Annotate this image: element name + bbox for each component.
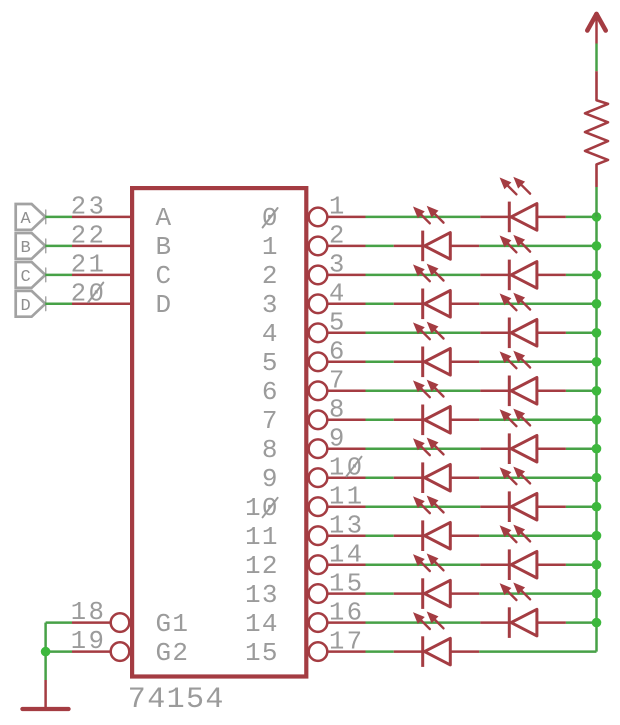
pin 22 (input B) xyxy=(71,222,173,263)
wire net C xyxy=(45,274,72,277)
pin 16 (output 14, inverting) xyxy=(245,598,366,638)
svg-text:12: 12 xyxy=(245,551,279,581)
node junction bus row 3 xyxy=(592,270,602,280)
wire G1 to ground net xyxy=(46,621,72,624)
pin 13 (output 11, inverting) xyxy=(245,512,366,552)
wire output 5 to LED xyxy=(366,361,394,364)
port D xyxy=(16,291,46,317)
LED D2 (row 2) xyxy=(394,207,480,262)
pin 3 (output 2, inverting) xyxy=(262,251,366,291)
wire LED 13 to bus xyxy=(566,563,597,566)
svg-text:5: 5 xyxy=(262,348,279,378)
wire LED 12 to bus xyxy=(479,534,596,537)
svg-text:3: 3 xyxy=(262,290,279,320)
svg-text:9: 9 xyxy=(329,425,347,454)
wire output 1 to LED xyxy=(366,245,394,248)
pin 18 (enable G1, inverting) xyxy=(71,598,190,639)
pin 15 (output 13, inverting) xyxy=(245,569,366,609)
svg-text:2: 2 xyxy=(262,261,279,291)
pin 11 (output 10, inverting) xyxy=(245,483,366,523)
svg-text:B: B xyxy=(156,232,173,262)
node junction bus row 12 xyxy=(592,531,602,541)
LED D3 (row 3) xyxy=(480,236,566,291)
pin 5 (output 4, inverting) xyxy=(262,309,366,349)
node junction at G2 xyxy=(41,647,51,657)
LED D14 (row 14) xyxy=(394,554,480,609)
wire LED 16 to bus xyxy=(479,650,596,653)
node junction bus row 10 xyxy=(592,473,602,483)
pin 4 (output 3, inverting) xyxy=(262,280,366,320)
wire resistor to bus xyxy=(595,187,598,217)
svg-text:6: 6 xyxy=(329,338,347,367)
pin 10 (output 9, inverting) xyxy=(262,454,366,494)
svg-text:8: 8 xyxy=(329,396,347,425)
svg-text:7: 7 xyxy=(329,367,347,396)
svg-text:2: 2 xyxy=(329,222,347,251)
pin 20 (input D) xyxy=(71,279,173,320)
pin 8 (output 7, inverting) xyxy=(262,396,366,436)
svg-text:D: D xyxy=(156,290,173,320)
wire output 9 to LED xyxy=(366,476,394,479)
svg-text:6: 6 xyxy=(262,377,279,407)
node junction bus row 8 xyxy=(592,415,602,425)
pin 14 (output 12, inverting) xyxy=(245,541,366,581)
svg-text:11: 11 xyxy=(329,483,365,512)
slashed zero marks xyxy=(88,208,361,517)
LED D7 (row 7) xyxy=(480,352,566,407)
wire LED 11 to bus xyxy=(566,505,597,508)
LED D1 (row 1) xyxy=(480,178,566,233)
node junction bus row 15 xyxy=(592,618,602,628)
node junction bus row 1 xyxy=(592,212,602,222)
LED D16 (row 16) xyxy=(394,612,480,667)
node junction bus row 13 xyxy=(592,560,602,570)
svg-text:11: 11 xyxy=(245,522,279,552)
node junction bus row 6 xyxy=(592,357,602,367)
svg-text:A: A xyxy=(156,203,173,233)
svg-text:8: 8 xyxy=(262,435,279,465)
node junction bus row 2 xyxy=(592,241,602,251)
LED D13 (row 13) xyxy=(480,526,566,581)
svg-text:1: 1 xyxy=(262,232,279,262)
wire LED 8 to bus xyxy=(479,419,596,422)
pin 17 (output 15, inverting) xyxy=(245,627,366,667)
svg-text:1: 1 xyxy=(329,193,347,222)
LED D12 (row 12) xyxy=(394,497,480,552)
wire LED 3 to bus xyxy=(566,274,597,277)
node junction bus row 4 xyxy=(592,299,602,309)
pin 19 (enable G2, inverting) xyxy=(71,627,190,668)
svg-text:18: 18 xyxy=(71,598,107,627)
LED D9 (row 9) xyxy=(480,410,566,465)
wire LED 14 to bus xyxy=(479,592,596,595)
wire net A xyxy=(45,216,72,219)
wire LED 10 to bus xyxy=(479,476,596,479)
LED D6 (row 6) xyxy=(394,323,480,378)
svg-text:A: A xyxy=(20,210,31,229)
wire anode bus vertical xyxy=(595,217,598,652)
wire output 12 to LED xyxy=(366,563,481,566)
wire output 8 to LED xyxy=(366,447,481,450)
node junction bus row 14 xyxy=(592,589,602,599)
pin 21 (input C) xyxy=(71,251,173,292)
wire output 15 to LED xyxy=(366,650,394,653)
svg-text:21: 21 xyxy=(71,251,107,280)
port A xyxy=(16,204,46,230)
LED D8 (row 8) xyxy=(394,381,480,436)
svg-text:4: 4 xyxy=(262,319,279,349)
wire G2 to ground net xyxy=(46,650,72,653)
wire LED 2 to bus xyxy=(479,245,596,248)
pin 23 (input A) xyxy=(71,193,173,234)
svg-text:13: 13 xyxy=(245,580,279,610)
wire output 14 to LED xyxy=(366,621,481,624)
pin 6 (output 5, inverting) xyxy=(262,338,366,378)
svg-text:10: 10 xyxy=(329,454,365,483)
svg-text:5: 5 xyxy=(329,309,347,338)
svg-text:17: 17 xyxy=(329,627,365,656)
node junction bus row 9 xyxy=(592,444,602,454)
svg-text:C: C xyxy=(20,268,30,287)
IC U1 74154 body xyxy=(132,188,306,676)
pin 9 (output 8, inverting) xyxy=(262,425,366,465)
resistor R1 xyxy=(585,71,608,187)
power VCC arrow xyxy=(587,14,605,44)
wire LED 9 to bus xyxy=(566,447,597,450)
port C xyxy=(16,262,46,288)
svg-text:19: 19 xyxy=(71,627,107,656)
wire output 3 to LED xyxy=(366,303,394,306)
pin 7 (output 6, inverting) xyxy=(262,367,366,407)
port B xyxy=(16,233,46,259)
svg-text:22: 22 xyxy=(71,222,107,251)
wire LED 1 to bus xyxy=(566,216,597,219)
svg-text:15: 15 xyxy=(245,638,279,668)
svg-text:14: 14 xyxy=(329,541,365,570)
LED D5 (row 5) xyxy=(480,294,566,349)
svg-text:4: 4 xyxy=(329,280,347,309)
LED D11 (row 11) xyxy=(480,468,566,523)
wire output 2 to LED xyxy=(366,274,481,277)
wire output 7 to LED xyxy=(366,419,394,422)
svg-text:C: C xyxy=(156,261,173,291)
node junction bus row 7 xyxy=(592,386,602,396)
value label 74154 xyxy=(128,683,225,717)
LED D15 (row 15) xyxy=(480,583,566,638)
wire LED 6 to bus xyxy=(479,361,596,364)
wire LED 15 to bus xyxy=(566,621,597,624)
wire output 0 to LED xyxy=(366,216,481,219)
svg-text:23: 23 xyxy=(71,193,107,222)
svg-text:13: 13 xyxy=(329,512,365,541)
wire output 6 to LED xyxy=(366,390,481,393)
svg-text:10: 10 xyxy=(245,493,279,523)
svg-text:B: B xyxy=(20,239,30,258)
pin 2 (output 1, inverting) xyxy=(262,222,366,262)
svg-text:G2: G2 xyxy=(156,638,190,668)
pin 1 (output 0, inverting) xyxy=(262,193,366,233)
LED D4 (row 4) xyxy=(394,265,480,320)
wire output 11 to LED xyxy=(366,534,394,537)
wire LED 7 to bus xyxy=(566,390,597,393)
wire net B xyxy=(45,245,72,248)
wire output 13 to LED xyxy=(366,592,394,595)
wire net D xyxy=(45,303,72,306)
wire LED 4 to bus xyxy=(479,303,596,306)
svg-text:D: D xyxy=(20,297,30,316)
wire VCC to resistor xyxy=(595,44,598,72)
wire ground net vertical xyxy=(44,623,47,680)
svg-text:20: 20 xyxy=(71,279,107,308)
svg-text:15: 15 xyxy=(329,569,365,598)
svg-text:3: 3 xyxy=(329,251,347,280)
svg-text:16: 16 xyxy=(329,598,365,627)
wire output 10 to LED xyxy=(366,505,481,508)
ground GND xyxy=(22,680,68,709)
node junction bus row 5 xyxy=(592,328,602,338)
wire output 4 to LED xyxy=(366,332,481,335)
svg-text:7: 7 xyxy=(262,406,279,436)
svg-text:9: 9 xyxy=(262,464,279,494)
svg-text:74154: 74154 xyxy=(128,683,225,717)
LED D10 (row 10) xyxy=(394,439,480,494)
node junction bus row 11 xyxy=(592,502,602,512)
svg-text:14: 14 xyxy=(245,609,279,639)
svg-text:G1: G1 xyxy=(156,609,190,639)
wire LED 5 to bus xyxy=(566,332,597,335)
